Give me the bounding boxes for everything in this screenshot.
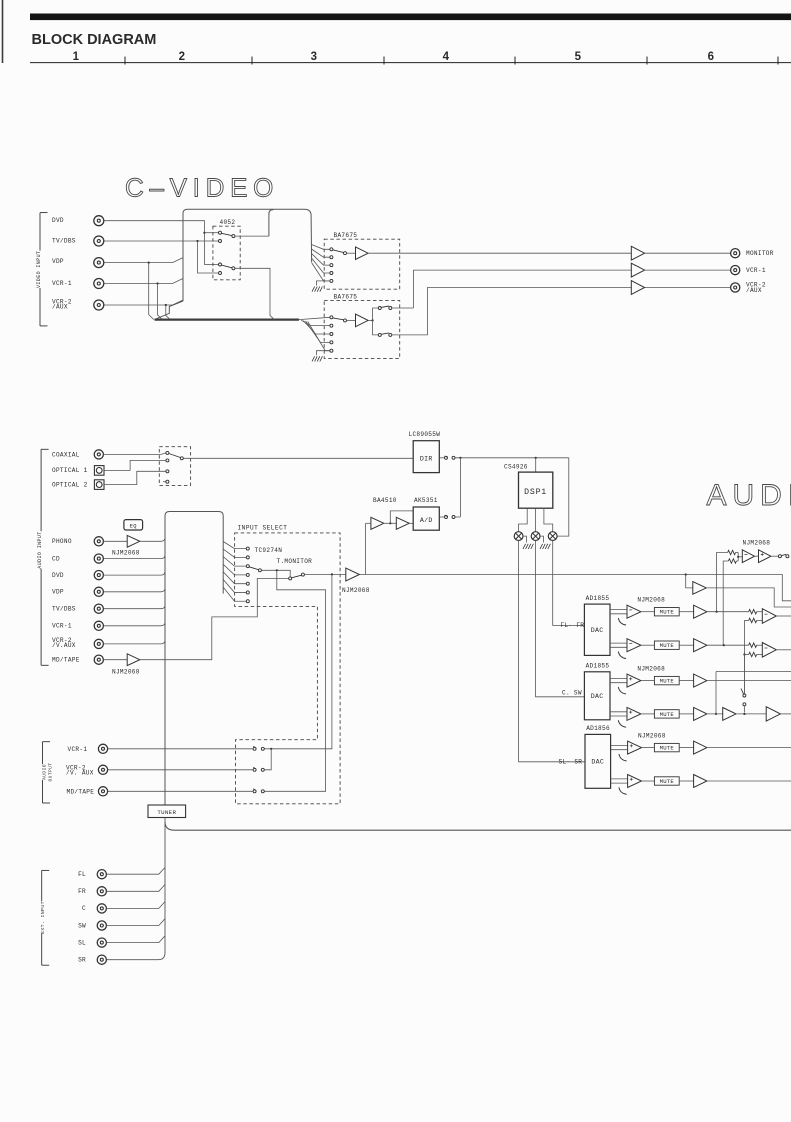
svg-text:SR: SR (78, 957, 86, 964)
svg-text:SL: SL (78, 939, 86, 946)
svg-text:MUTE: MUTE (660, 609, 675, 616)
svg-text:OPTICAL 1: OPTICAL 1 (52, 467, 88, 474)
svg-text:PHONO: PHONO (52, 538, 72, 545)
svg-text:6: 6 (708, 51, 715, 63)
svg-text:OPTICAL 2: OPTICAL 2 (52, 481, 88, 488)
svg-text:AUDIO INPUT: AUDIO INPUT (37, 531, 43, 568)
svg-text:2: 2 (179, 51, 186, 63)
svg-text:NJM2068: NJM2068 (342, 587, 370, 594)
svg-text:C. SW: C. SW (562, 690, 582, 697)
svg-text:SW: SW (78, 922, 86, 929)
svg-text:INPUT SELECT: INPUT SELECT (238, 525, 288, 532)
svg-text:DAC: DAC (591, 759, 604, 766)
svg-text:DAC: DAC (591, 693, 604, 700)
svg-text:COAXIAL: COAXIAL (52, 452, 80, 459)
svg-text:TV/DBS: TV/DBS (52, 238, 76, 245)
svg-text:C: C (82, 905, 86, 912)
svg-text:3: 3 (311, 51, 318, 63)
svg-text:1: 1 (73, 51, 80, 63)
svg-text:TC9274N: TC9274N (255, 547, 283, 554)
svg-text:VCR-1: VCR-1 (52, 280, 72, 287)
svg-text:MUTE: MUTE (660, 678, 675, 685)
svg-text:BA4510: BA4510 (373, 497, 397, 504)
svg-text:NJM2068: NJM2068 (638, 733, 666, 740)
svg-text:CS4926: CS4926 (504, 464, 528, 471)
svg-text:VCR-1: VCR-1 (52, 623, 72, 630)
svg-text:TV/DBS: TV/DBS (52, 605, 76, 612)
svg-text:AD1855: AD1855 (586, 595, 610, 602)
svg-text:BA7675: BA7675 (334, 232, 358, 239)
svg-text:DIR: DIR (420, 456, 433, 463)
svg-text:TUNER: TUNER (157, 809, 176, 816)
svg-text:NJM2068: NJM2068 (112, 668, 140, 675)
svg-text:AD1855: AD1855 (586, 663, 610, 670)
svg-text:FL: FL (78, 871, 86, 878)
svg-text:VIDEO INPUT: VIDEO INPUT (36, 251, 42, 288)
svg-text:VDP: VDP (52, 589, 64, 596)
svg-text:AD1856: AD1856 (586, 725, 610, 732)
svg-text:DVD: DVD (52, 572, 64, 579)
svg-text:4: 4 (443, 51, 450, 63)
svg-text:AUDIO: AUDIO (42, 764, 48, 780)
svg-text:SL- SR: SL- SR (559, 759, 583, 766)
svg-text:DVD: DVD (52, 217, 64, 224)
svg-text:A/D: A/D (420, 517, 433, 524)
svg-text:MUTE: MUTE (660, 642, 675, 649)
svg-text:/AUX: /AUX (52, 304, 68, 311)
svg-text:MUTE: MUTE (660, 711, 675, 718)
svg-text:DAC: DAC (591, 627, 604, 634)
svg-text:CD: CD (52, 555, 60, 562)
svg-text:MONITOR: MONITOR (746, 250, 774, 257)
svg-text:C–VIDEO: C–VIDEO (125, 173, 279, 203)
svg-text:EQ: EQ (130, 524, 137, 530)
svg-text:T.MONITOR: T.MONITOR (277, 558, 313, 565)
svg-text:VCR-1: VCR-1 (746, 267, 766, 274)
svg-text:VDP: VDP (52, 258, 64, 265)
svg-text:OUTPUT: OUTPUT (48, 763, 54, 782)
svg-text:FL- FR: FL- FR (561, 622, 585, 629)
svg-text:/V. AUX: /V. AUX (66, 770, 94, 777)
svg-text:NJM2068: NJM2068 (637, 666, 665, 673)
svg-text:MD/TAPE: MD/TAPE (67, 788, 95, 795)
svg-text:NJM2068: NJM2068 (637, 597, 665, 604)
svg-text:4052: 4052 (220, 219, 236, 226)
svg-text:5: 5 (575, 51, 582, 63)
svg-text:DSP1: DSP1 (524, 488, 547, 497)
svg-text:LC89055W: LC89055W (409, 431, 441, 438)
svg-text:VCR-1: VCR-1 (68, 746, 88, 753)
svg-text:BLOCK DIAGRAM: BLOCK DIAGRAM (32, 32, 157, 48)
svg-text:MD/TAPE: MD/TAPE (52, 656, 80, 663)
svg-text:MUTE: MUTE (660, 745, 675, 752)
svg-text:MUTE: MUTE (660, 778, 675, 785)
svg-text:AK5351: AK5351 (414, 497, 438, 504)
svg-text:/V.AUX: /V.AUX (52, 642, 76, 649)
svg-text:EXT. INPUT: EXT. INPUT (40, 901, 46, 934)
svg-text:NJM2068: NJM2068 (112, 550, 140, 557)
svg-text:NJM2068: NJM2068 (743, 539, 771, 546)
svg-text:AUDIO: AUDIO (707, 479, 791, 512)
svg-text:/AUX: /AUX (746, 287, 762, 294)
svg-text:BA7675: BA7675 (334, 294, 358, 301)
svg-text:FR: FR (78, 888, 86, 895)
